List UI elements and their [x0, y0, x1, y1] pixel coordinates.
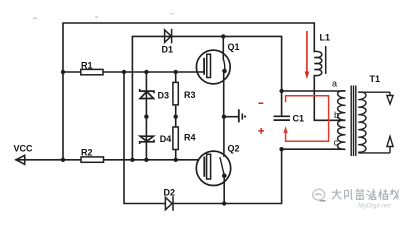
- wire Q2 drain lead top: [223, 117, 225, 156]
- red resonant loop with arrow: [286, 96, 329, 142]
- transformer T1: [338, 86, 394, 157]
- VCC arrow: [16, 155, 25, 164]
- faint smudges top left: [33, 13, 175, 19]
- watermark text 大印蓝海科技 (vector strokes): [332, 189, 399, 200]
- diode D2: [165, 196, 173, 211]
- svg-text:MyDigit.net: MyDigit.net: [358, 203, 392, 210]
- wire R3 branch: [175, 72, 177, 82]
- junction node c / C1 bottom: [279, 147, 283, 151]
- junction Q1 drain / inner rail: [221, 34, 225, 38]
- wire Q1 source lead: [223, 71, 225, 117]
- wire inner D1 rail: [132, 36, 281, 160]
- svg-text:c: c: [334, 138, 339, 148]
- red current arrow near L1: [306, 31, 308, 72]
- svg-text:D1: D1: [162, 45, 174, 55]
- svg-text:a: a: [332, 79, 337, 89]
- junction left rail / R1 row: [61, 70, 65, 74]
- wire source rail mid: [224, 116, 238, 118]
- svg-text:R1: R1: [81, 61, 93, 71]
- junction R3/R4 midpoint: [174, 115, 178, 119]
- svg-text:T1: T1: [370, 74, 381, 84]
- svg-text:D4: D4: [160, 134, 172, 144]
- svg-text:C1: C1: [293, 114, 305, 124]
- svg-text:b: b: [334, 110, 339, 120]
- svg-text:Q2: Q2: [228, 144, 240, 154]
- wire bottom rail right of D2: [174, 149, 282, 203]
- junction node a / C1 top: [279, 89, 283, 93]
- ground terminal (common source): [239, 109, 243, 122]
- inductor L1: [314, 46, 325, 76]
- resistor R4: [173, 127, 178, 150]
- junction R1 row / R3 top: [174, 70, 178, 74]
- zener diode D3: [140, 89, 154, 99]
- svg-text:L1: L1: [320, 33, 331, 43]
- wire R1 row: [63, 71, 81, 73]
- wire D4 branch: [145, 117, 147, 160]
- red polarity plus: [258, 128, 264, 134]
- transistor Q1: [196, 50, 230, 84]
- svg-text:D3: D3: [158, 91, 170, 101]
- watermark logo: [313, 189, 325, 200]
- junction common source rail: [222, 115, 226, 119]
- wire outer top rail: [63, 23, 314, 160]
- wire Q1 drain lead: [222, 36, 224, 59]
- svg-text:R2: R2: [81, 148, 93, 158]
- junction R1 row / D3 top: [144, 70, 148, 74]
- transistor Q2: [196, 151, 230, 185]
- junction Q2 drain / bottom rail: [222, 201, 226, 205]
- wire R4 branch: [175, 117, 177, 127]
- resistor R2: [81, 157, 104, 162]
- junction R1 row / D2 branch: [122, 70, 126, 74]
- wire D3 branch: [145, 72, 147, 117]
- junction VCC row / D4 bottom: [144, 158, 148, 162]
- wire c rail: [282, 148, 344, 150]
- diode D1: [165, 29, 172, 44]
- wire L1 to b tap: [314, 76, 344, 121]
- wire D2 left vertical and bottom rail: [124, 72, 165, 204]
- resistor R1: [81, 69, 103, 74]
- svg-text:Q1: Q1: [228, 42, 240, 52]
- junction D3/D4 midpoint: [144, 115, 148, 119]
- junction VCC row / R4 bottom: [174, 158, 178, 162]
- wire a rail: [282, 90, 344, 92]
- zener diode D4: [140, 136, 154, 144]
- junction VCC row / D1 branch: [130, 158, 134, 162]
- junction left rail / VCC row: [61, 158, 65, 162]
- svg-text:R4: R4: [184, 133, 196, 143]
- svg-text:R3: R3: [184, 90, 196, 100]
- wire Q2 source lead: [223, 176, 225, 204]
- capacitor C1: [274, 116, 291, 120]
- red polarity minus: [259, 102, 264, 104]
- svg-text:VCC: VCC: [14, 144, 34, 154]
- wire VCC row: [16, 159, 81, 161]
- resistor R3: [173, 82, 178, 105]
- svg-text:D2: D2: [164, 188, 176, 198]
